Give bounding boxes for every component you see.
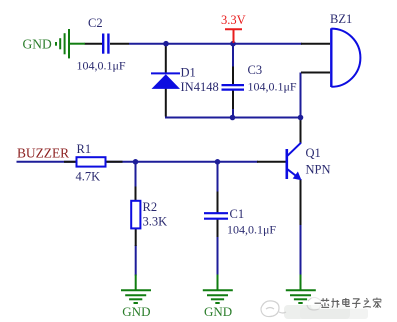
svg-text:D1: D1	[181, 65, 196, 79]
svg-text:104,0.1μF: 104,0.1μF	[77, 58, 126, 72]
svg-text:3.3V: 3.3V	[221, 13, 246, 27]
svg-text:C1: C1	[230, 207, 245, 221]
svg-text:C3: C3	[248, 63, 263, 77]
svg-text:GND: GND	[122, 304, 150, 319]
svg-text:GND: GND	[204, 304, 232, 319]
svg-text:BZ1: BZ1	[330, 12, 352, 26]
svg-text:R1: R1	[77, 142, 92, 156]
svg-text:3.3K: 3.3K	[143, 215, 168, 229]
svg-text:BUZZER: BUZZER	[17, 146, 69, 161]
svg-text:GND: GND	[23, 36, 52, 51]
svg-text:C2: C2	[88, 16, 103, 30]
svg-text:4.7K: 4.7K	[76, 170, 101, 184]
svg-text:R2: R2	[143, 200, 158, 214]
svg-text:104,0.1μF: 104,0.1μF	[248, 79, 297, 93]
svg-text:Q1: Q1	[306, 146, 321, 160]
svg-text:104,0.1μF: 104,0.1μF	[227, 223, 276, 237]
svg-text:NPN: NPN	[306, 162, 331, 176]
svg-text:IN4148: IN4148	[181, 80, 219, 94]
